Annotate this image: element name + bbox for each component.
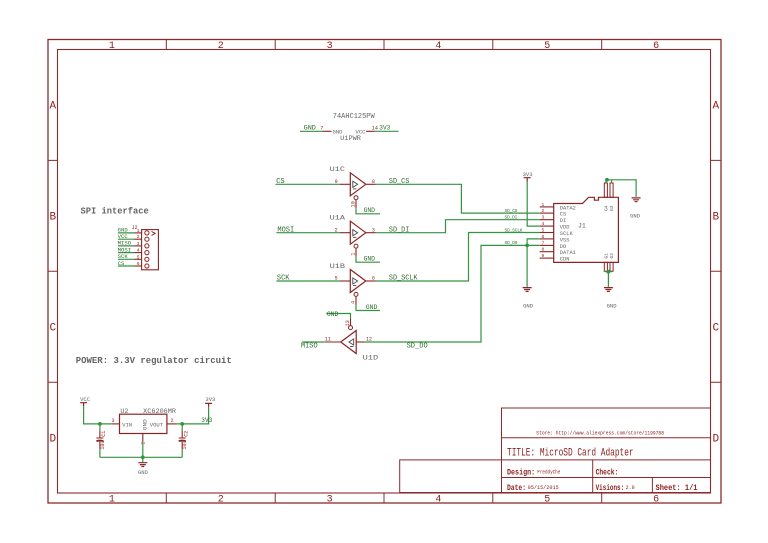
label net SD_DI <box>389 226 409 234</box>
pin J1 5 <box>540 232 554 234</box>
capacitor C1 curved plate <box>96 440 103 443</box>
svg-text:DI: DI <box>560 218 566 224</box>
pin name CS <box>560 212 566 218</box>
svg-text:6: 6 <box>542 234 545 240</box>
pin number 8 <box>372 179 375 185</box>
svg-text:7: 7 <box>320 125 323 131</box>
frame column numbers bottom <box>109 495 659 506</box>
label net CS at J2 <box>118 261 125 267</box>
junction VSS-SD_DO crossing <box>525 244 529 248</box>
pin name GND rotated inside U2 <box>142 419 148 430</box>
frame row ticks right <box>711 160 722 382</box>
capacitor C2 lower lead <box>181 442 183 449</box>
pin name VCC of U1PWR <box>356 128 367 135</box>
pin number 13 rotated <box>345 320 351 326</box>
shield pin G3 top <box>610 183 613 197</box>
pin number 6 of J1 <box>542 234 545 240</box>
label net VCC at J2 <box>118 234 128 240</box>
pin number 12 <box>366 337 372 343</box>
frame row letters left <box>49 101 56 446</box>
svg-text:Design:: Design: <box>507 468 535 478</box>
svg-text:GND: GND <box>630 213 640 219</box>
pin J1 4 <box>540 225 554 227</box>
svg-text:1: 1 <box>137 228 140 234</box>
svg-text:A: A <box>712 101 719 113</box>
pin number 6 <box>372 276 375 282</box>
svg-text:VSS: VSS <box>560 237 570 243</box>
svg-text:C: C <box>49 323 56 335</box>
pin J2 1 <box>135 232 142 234</box>
svg-text:5: 5 <box>544 41 550 52</box>
wire VCC to regulator VIN <box>84 406 112 424</box>
svg-text:10u: 10u <box>100 441 106 450</box>
label net GND at J2 <box>118 228 128 234</box>
capacitor C1 symbol <box>96 431 103 438</box>
svg-text:4: 4 <box>435 495 441 506</box>
svg-text:SD_SCLK: SD_SCLK <box>389 275 418 283</box>
svg-text:G1: G1 <box>604 253 610 259</box>
capacitor C1 designator rotated <box>101 431 107 437</box>
power symbol VCC name <box>80 397 90 403</box>
power symbol 3V3 at regulator <box>205 403 212 406</box>
pin U1PWR pin 14 (VCC) <box>366 130 374 132</box>
pin U1B 6 output <box>366 280 376 282</box>
svg-text:1: 1 <box>109 495 115 506</box>
svg-text:G3: G3 <box>609 205 615 211</box>
svg-text:MISO: MISO <box>301 343 318 351</box>
svg-text:VDD: VDD <box>560 225 570 231</box>
label net GND at U1B enable <box>366 304 378 311</box>
svg-text:J1: J1 <box>578 223 586 230</box>
junction shield top <box>605 178 609 182</box>
svg-text:GND: GND <box>523 303 533 309</box>
connector J1 body (microSD card shape) <box>554 197 619 262</box>
pin number 2 of J1 <box>542 208 545 214</box>
label net SCK at J2 <box>118 254 129 260</box>
regulator U2 body <box>120 414 167 433</box>
svg-text:2: 2 <box>218 495 224 506</box>
svg-text:CDN: CDN <box>560 257 570 263</box>
svg-text:SD_CS: SD_CS <box>389 178 409 186</box>
ground symbol below J1 <box>604 288 613 292</box>
pin number 7 of J1 <box>542 240 545 246</box>
frame column ticks top <box>166 40 601 50</box>
junction VIN-C1 <box>98 422 102 426</box>
wire CS input net <box>275 183 340 185</box>
label net 3V3 at regulator output <box>201 417 212 424</box>
label net SCK <box>277 275 290 283</box>
svg-text:3V3: 3V3 <box>205 397 215 403</box>
wire J2 pin3 MISO <box>118 245 135 247</box>
shield pin G4 top <box>604 183 607 197</box>
svg-text:VCC: VCC <box>80 397 90 403</box>
svg-text:5: 5 <box>544 495 550 506</box>
pin number 10 rotated <box>350 201 356 207</box>
pin J2 2 <box>135 238 142 240</box>
svg-text:GND: GND <box>118 228 128 234</box>
svg-text:6: 6 <box>137 261 140 267</box>
label net MISO at J2 <box>118 241 131 247</box>
svg-text:1: 1 <box>350 253 356 256</box>
frame outer border <box>48 40 721 504</box>
svg-text:2: 2 <box>171 418 174 424</box>
title block designer name <box>537 470 560 476</box>
wire U2 GND pin to rail and ground <box>142 443 144 462</box>
connector J1 designator <box>578 223 586 230</box>
svg-text:3: 3 <box>542 215 545 221</box>
note: SPI interface section header <box>81 206 149 216</box>
wire J2 pin5 SCK <box>118 258 135 260</box>
pin number 1 rotated <box>350 253 356 256</box>
shield pin G1 bottom <box>604 262 607 271</box>
label net SD_DI near J1 <box>505 215 518 221</box>
wire U1B enable to GND <box>356 305 380 311</box>
pin U1C 10 enable <box>355 200 357 209</box>
svg-text:4: 4 <box>137 248 140 254</box>
svg-text:MISO: MISO <box>118 241 131 247</box>
pin number 11 <box>325 337 331 343</box>
IC U1PWR value 74AHC125PW <box>333 113 376 121</box>
pin U1D 11 output <box>324 341 340 343</box>
pin name SCLK <box>560 231 574 237</box>
pin number 4 of J2 <box>137 248 140 254</box>
svg-text:D: D <box>712 434 719 446</box>
pin number 2 of J2 <box>137 234 140 240</box>
svg-text:3V3: 3V3 <box>201 417 212 424</box>
wire MISO output net <box>302 341 324 343</box>
label net SD_DO <box>407 342 428 350</box>
pin number 9 <box>335 179 338 185</box>
junction shield bottom <box>607 270 611 274</box>
svg-text:SD_DI: SD_DI <box>389 226 409 234</box>
label net SD_CS <box>389 178 409 186</box>
buffer U1A enable bubble <box>354 244 358 248</box>
svg-text:8: 8 <box>542 247 545 253</box>
ground symbol below VSS <box>523 288 532 292</box>
buffer U1D inner glyph <box>349 339 354 347</box>
pin U1A 2 input <box>340 232 350 234</box>
svg-text:GND: GND <box>364 256 376 263</box>
svg-text:6: 6 <box>653 41 659 52</box>
svg-text:G2: G2 <box>609 253 615 259</box>
svg-text:POWER: 3.3V regulator circuit: POWER: 3.3V regulator circuit <box>76 356 232 366</box>
title block Sheet label <box>656 483 698 493</box>
buffer U1D designator <box>363 355 379 362</box>
svg-text:TITLE: MicroSD Card Adapter: TITLE: MicroSD Card Adapter <box>507 447 634 459</box>
capacitor C2 designator rotated <box>184 431 190 437</box>
wire net SD_DO from U1D to J1 pin7 <box>364 245 540 342</box>
frame column ticks bottom <box>166 493 601 503</box>
buffer U1B designator <box>330 263 346 270</box>
pin name DI <box>560 218 566 224</box>
buffer U1A triangle <box>350 221 366 244</box>
pin J1 3 <box>540 219 554 221</box>
pin U1A 3 output <box>366 232 376 234</box>
svg-text:MOSI: MOSI <box>277 226 294 234</box>
svg-text:GND: GND <box>333 128 344 135</box>
buffer U1B triangle <box>350 270 366 293</box>
wire U1C enable to GND <box>356 208 380 214</box>
svg-text:SD_DO: SD_DO <box>505 240 518 246</box>
svg-text:CS: CS <box>276 178 284 186</box>
buffer U1D triangle (points left) <box>341 331 357 354</box>
pin U1B 5 input <box>340 280 350 282</box>
label net GND at U1D enable <box>327 311 339 318</box>
svg-text:11: 11 <box>325 337 331 343</box>
svg-text:3: 3 <box>327 41 333 52</box>
title block box <box>502 408 711 493</box>
wire U1PWR 3V3 net stub <box>374 130 399 132</box>
pin J1 9 <box>540 257 554 259</box>
svg-text:Sheet: 1/1: Sheet: 1/1 <box>656 483 698 493</box>
capacitor C2 lead from VOUT junction <box>181 424 183 431</box>
wire C2 to ground rail <box>181 449 183 457</box>
wire net SD_DI from U1A to J1 pin3 <box>376 220 540 233</box>
wire SCK input net <box>276 280 340 282</box>
svg-text:Store: http://www.aliexpress.c: Store: http://www.aliexpress.com/store/1… <box>536 430 664 436</box>
svg-text:SD_SCLK: SD_SCLK <box>505 227 523 233</box>
pin U1D 12 input <box>356 341 364 343</box>
note: POWER section header <box>76 356 232 366</box>
frame inner border <box>58 50 711 494</box>
buffer U1A inner glyph <box>353 230 358 238</box>
connector J2 designator <box>132 225 138 231</box>
capacitor C2 value 10u rotated <box>182 441 188 450</box>
svg-text:U2: U2 <box>120 408 128 415</box>
svg-text:2.0: 2.0 <box>626 485 635 491</box>
svg-text:9: 9 <box>542 253 545 259</box>
svg-text:SD_CS: SD_CS <box>505 208 518 214</box>
pin J2 5 <box>135 258 142 260</box>
capacitor C2 curved plate <box>179 440 186 443</box>
wire shield bottom to GND <box>606 271 612 287</box>
svg-text:3: 3 <box>372 227 375 233</box>
ground name below VSS <box>523 303 533 309</box>
regulator U2 value XC6206MR <box>143 408 176 415</box>
svg-text:U1PWR: U1PWR <box>340 135 361 142</box>
pin U1C 9 input <box>340 183 350 185</box>
buffer U1C triangle <box>350 173 366 196</box>
pin name DATA1 <box>560 250 576 256</box>
svg-text:GND: GND <box>364 207 376 214</box>
pin U2 2 (VOUT) <box>167 423 177 425</box>
pin J2 4 <box>135 252 142 254</box>
power symbol VCC <box>80 403 87 407</box>
pin number 3 of U2 <box>112 418 115 424</box>
svg-text:VCC: VCC <box>118 234 128 240</box>
frame row letters right <box>712 101 719 446</box>
wire J2 pin6 CS <box>118 265 135 267</box>
svg-text:74AHC125PW: 74AHC125PW <box>333 113 376 121</box>
ground symbol regulator <box>138 463 147 467</box>
wire J2 pin4 MOSI <box>118 252 135 254</box>
wire VOUT to 3V3 <box>177 407 209 424</box>
svg-text:XC6206MR: XC6206MR <box>143 408 176 415</box>
pin U1PWR pin 7 (GND) <box>323 130 332 132</box>
svg-text:5: 5 <box>137 254 140 260</box>
pin number 8 of J1 <box>542 247 545 253</box>
shield pin G2 bottom <box>610 262 613 271</box>
pin name DATA2 <box>560 205 576 211</box>
pin J1 7 <box>540 244 554 246</box>
label net MISO <box>301 343 318 351</box>
wire J2 pin1 GND <box>118 232 135 234</box>
buffer U1C inner glyph <box>353 181 358 189</box>
title block store url text <box>536 430 664 436</box>
ground name right of J1 <box>630 213 640 219</box>
pin number 6 of J2 <box>137 261 140 267</box>
svg-text:3: 3 <box>137 241 140 247</box>
svg-text:4: 4 <box>435 41 441 52</box>
svg-text:U1A: U1A <box>330 214 346 221</box>
svg-text:6: 6 <box>653 495 659 506</box>
pin J1 8 <box>540 251 554 253</box>
svg-text:U1D: U1D <box>363 355 379 362</box>
pin number 2 of U2 <box>171 418 174 424</box>
wire ground rail <box>100 456 182 458</box>
svg-text:GND: GND <box>366 304 378 311</box>
pin U1B 4 enable <box>355 296 357 305</box>
title block Visions label <box>596 483 625 493</box>
title block Check label <box>596 468 619 478</box>
svg-text:Check:: Check: <box>596 468 619 478</box>
svg-text:1: 1 <box>109 41 115 52</box>
svg-text:DATA2: DATA2 <box>560 205 576 211</box>
buffer U1C enable bubble <box>354 196 358 200</box>
buffer U1D enable bubble <box>349 326 353 330</box>
pin U1D 13 enable <box>350 318 352 325</box>
pin number 2 <box>335 227 338 233</box>
label net GND at U1PWR <box>304 124 317 131</box>
svg-text:3V3: 3V3 <box>523 172 533 178</box>
svg-text:DATA1: DATA1 <box>560 250 576 256</box>
capacitor C2 symbol <box>179 431 186 438</box>
label net SD_SCLK <box>389 275 418 283</box>
svg-text:SD_DI: SD_DI <box>505 215 518 221</box>
svg-text:MOSI: MOSI <box>118 247 131 253</box>
pin J1 1 <box>540 206 554 208</box>
svg-text:U1B: U1B <box>330 263 346 270</box>
wire C1 to ground rail <box>99 449 101 457</box>
pin J2 3 <box>135 245 142 247</box>
svg-text:SCLK: SCLK <box>560 231 574 237</box>
svg-text:SCK: SCK <box>277 275 290 283</box>
svg-text:1: 1 <box>542 202 545 208</box>
buffer U1C designator <box>330 166 346 173</box>
svg-text:8: 8 <box>372 179 375 185</box>
pin name VIN <box>122 422 132 428</box>
svg-text:2: 2 <box>137 234 140 240</box>
svg-text:B: B <box>712 212 719 224</box>
pin J1 6 <box>540 238 554 240</box>
buffer U1B enable bubble <box>354 292 358 296</box>
svg-text:9: 9 <box>335 179 338 185</box>
svg-text:A: A <box>49 101 56 113</box>
pin number 1 of J1 <box>542 202 545 208</box>
pin name GND of U1PWR <box>333 128 344 135</box>
svg-text:CS: CS <box>118 261 125 267</box>
svg-text:DO: DO <box>560 244 566 250</box>
svg-text:VOUT: VOUT <box>150 422 163 428</box>
svg-text:U1C: U1C <box>330 166 346 173</box>
pin U2 3 (VIN) <box>111 423 119 425</box>
pin number 1 of U2 rotated <box>139 442 145 445</box>
svg-text:2: 2 <box>218 41 224 52</box>
pin number 3 of J1 <box>542 215 545 221</box>
connector J2 pad circles <box>145 231 149 268</box>
pin U1A 1 enable <box>355 248 357 257</box>
ground symbol right of J1 <box>632 198 641 202</box>
label net GND at U1A enable <box>364 256 376 263</box>
wire U1PWR GND net stub <box>300 130 323 132</box>
pin number 4 rotated <box>350 301 356 304</box>
title block date value <box>528 485 559 491</box>
svg-text:Visions:: Visions: <box>596 483 625 493</box>
svg-text:VIN: VIN <box>122 422 132 428</box>
ground name below J1 <box>607 303 617 309</box>
capacitor C1 value 10u rotated <box>100 441 106 450</box>
frame column numbers top <box>109 41 659 52</box>
svg-text:GND: GND <box>142 419 148 430</box>
svg-text:5: 5 <box>542 228 545 234</box>
svg-text:10u: 10u <box>182 441 188 450</box>
pin name CDN <box>560 257 570 263</box>
wire net SD_SCLK from U1B to J1 pin5 <box>376 233 540 282</box>
label net SD_CS near J1 <box>505 208 518 214</box>
svg-text:D: D <box>49 434 56 446</box>
svg-text:3: 3 <box>327 495 333 506</box>
pin name VOUT <box>150 422 163 428</box>
pin name G1 rotated <box>604 253 610 259</box>
label net 3V3 at U1PWR <box>379 124 390 131</box>
svg-text:7: 7 <box>542 240 545 246</box>
pin number 5 of J1 <box>542 228 545 234</box>
svg-text:GND: GND <box>304 124 317 131</box>
wire 3V3 to J1 VDD pin4 <box>527 182 540 227</box>
power symbol 3V3 name <box>523 172 533 178</box>
svg-text:2: 2 <box>542 208 545 214</box>
svg-text:CS: CS <box>560 212 566 218</box>
svg-text:C: C <box>712 323 719 335</box>
svg-text:G4: G4 <box>604 205 610 211</box>
wire U1A enable to GND <box>356 257 380 263</box>
label net SD_SCLK near J1 <box>505 227 523 233</box>
svg-text:4: 4 <box>542 221 545 227</box>
title block annex box <box>400 460 502 493</box>
pin name VDD <box>560 225 570 231</box>
wire U1D enable to GND <box>326 314 350 319</box>
title block Design label <box>507 468 535 478</box>
junction rail-GND <box>141 455 145 459</box>
wire J1 VSS pin6 to GND <box>527 239 540 287</box>
buffer U1B inner glyph <box>353 278 358 286</box>
frame row ticks left <box>48 160 58 382</box>
label net CS <box>276 178 284 186</box>
wire J2 pin2 VCC <box>118 238 135 240</box>
svg-text:4: 4 <box>350 301 356 304</box>
svg-text:GND: GND <box>138 470 148 476</box>
pin U2 1 (GND) <box>142 434 144 443</box>
capacitor C1 lead from VIN junction <box>99 424 101 431</box>
svg-text:SD_DO: SD_DO <box>407 342 428 350</box>
wire net SD_CS from U1C to J1 pin2 <box>376 184 540 213</box>
title block TITLE text <box>507 447 634 459</box>
pin name G4 rotated <box>604 205 610 211</box>
connector J2 pin-1 arrow mark <box>152 231 156 235</box>
svg-text:SPI interface: SPI interface <box>81 206 149 216</box>
wire shield top to GND <box>606 180 636 197</box>
pin name DO <box>560 244 566 250</box>
